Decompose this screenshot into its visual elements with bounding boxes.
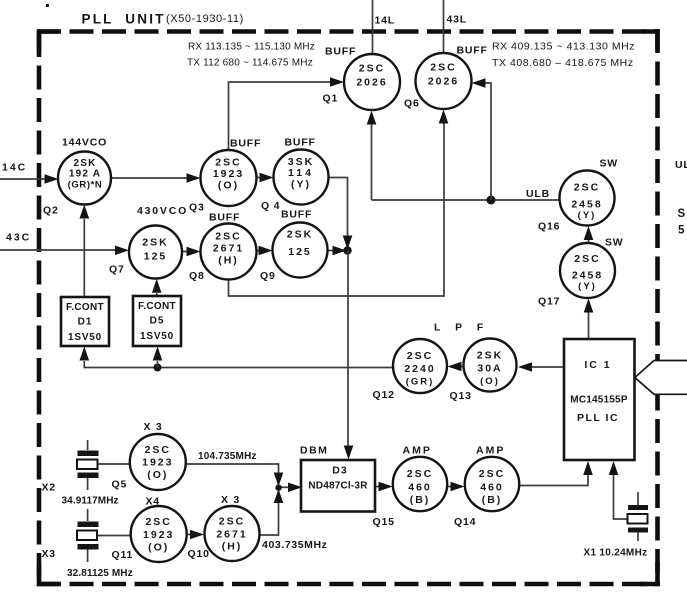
svg-text:TX 112 680 ~ 114.675 MHz: TX 112 680 ~ 114.675 MHz xyxy=(187,58,313,69)
arrow into Q9 left xyxy=(259,246,273,256)
wire Q13 to Q12 xyxy=(461,366,464,368)
svg-text:SW: SW xyxy=(600,158,619,170)
crystal X2 bottom lead xyxy=(87,478,89,490)
crystal X2 bottom plate xyxy=(78,473,99,479)
svg-text:14C: 14C xyxy=(2,162,27,174)
wire Q9 right to junction xyxy=(328,250,336,252)
svg-text:(B): (B) xyxy=(410,494,431,506)
arrow up into Q17 bottom xyxy=(584,299,594,313)
transistor Q14 amp xyxy=(465,457,519,511)
wire junction down to DBM top xyxy=(347,251,349,448)
svg-text:1923: 1923 xyxy=(143,529,174,541)
transistor Q13 xyxy=(464,339,517,392)
svg-text:BUFF: BUFF xyxy=(325,46,356,58)
wire Q1 bottom down to ULB line xyxy=(371,124,373,200)
arrow left into Q13 right xyxy=(518,362,532,372)
wire IC1 top to Q17 xyxy=(588,312,590,339)
arrow up into Q1 bottom xyxy=(367,111,377,125)
op-amp IC1 PLL MC145155P xyxy=(564,339,635,460)
svg-text:AMP: AMP xyxy=(403,445,432,457)
arrow into Q7 left xyxy=(115,246,129,256)
svg-text:MC145155P: MC145155P xyxy=(570,395,628,406)
wire Q8 to Q9 xyxy=(257,250,261,252)
svg-text:2SC: 2SC xyxy=(479,468,505,480)
wire bowtie to DBM left xyxy=(279,486,292,488)
svg-text:2SK: 2SK xyxy=(73,158,96,169)
svg-text:BUFF: BUFF xyxy=(281,209,312,221)
wire IC1 left to Q13 xyxy=(532,366,564,368)
arrow into Q4 left xyxy=(260,173,274,183)
svg-text:2SC: 2SC xyxy=(574,182,600,194)
svg-text:2671: 2671 xyxy=(213,243,244,255)
svg-text:2SC: 2SC xyxy=(407,468,433,480)
svg-text:TX 408.680 – 418.675 MHz: TX 408.680 – 418.675 MHz xyxy=(492,57,634,69)
svg-text:2SC: 2SC xyxy=(215,231,241,243)
transistor Q6 buffer 2SC2026 xyxy=(416,53,472,109)
wire Q2 to Q3 xyxy=(111,177,188,179)
svg-text:1SV50: 1SV50 xyxy=(68,332,102,343)
svg-text:Q15: Q15 xyxy=(373,516,395,528)
wire Q11 to Q10 xyxy=(187,534,192,536)
svg-text:2458: 2458 xyxy=(571,199,602,211)
wire X3 to Q11 xyxy=(98,535,131,537)
wire 14L line into Q1 top xyxy=(372,0,374,56)
arrow up into F.CONT D5 bottom xyxy=(153,347,163,361)
crystal X2 top plate xyxy=(78,451,99,457)
wire Q14 right to IC1 bottom xyxy=(519,475,588,486)
arrow up into IC1 bottom from Q14 xyxy=(583,461,593,475)
svg-text:2240: 2240 xyxy=(404,363,435,375)
crystal X1 top lead xyxy=(637,492,639,505)
svg-text:5: 5 xyxy=(678,225,685,237)
arrow up bowtie bottom xyxy=(274,489,284,503)
svg-text:Q2: Q2 xyxy=(43,205,59,217)
svg-text:(H): (H) xyxy=(222,541,243,553)
arrow up into IC1 bottom from X1 xyxy=(609,461,619,475)
svg-text:X3: X3 xyxy=(42,548,56,560)
svg-text:(O): (O) xyxy=(148,542,169,554)
wire Q5 output to mixer junction xyxy=(186,464,279,474)
svg-text:RX 113.135 ~ 115.130 MHz: RX 113.135 ~ 115.130 MHz xyxy=(188,42,315,53)
border corner elbows xyxy=(39,32,58,53)
wire ULB horizontal xyxy=(372,199,560,201)
svg-text:1923: 1923 xyxy=(142,457,173,469)
crystal X1 top plate xyxy=(628,505,648,510)
wire Q4 right down to junction xyxy=(329,178,348,238)
arrow right into Q14 left xyxy=(451,482,465,492)
svg-text:(O): (O) xyxy=(480,376,500,387)
svg-text:RX 409.135 ~ 413.130 MHz: RX 409.135 ~ 413.130 MHz xyxy=(492,41,635,53)
arrow up into Q6 bottom xyxy=(439,110,449,124)
svg-text:(Y): (Y) xyxy=(578,210,597,221)
transistor Q17 switch xyxy=(560,243,615,298)
svg-text:2SK: 2SK xyxy=(142,237,168,249)
node junction Q4/Q9 xyxy=(343,246,351,254)
svg-text:ULB: ULB xyxy=(526,188,550,200)
svg-text:L P F: L P F xyxy=(434,322,489,334)
wire F.CONT D5 top to Q7 bottom xyxy=(156,293,158,296)
arrow left into Q6 right xyxy=(472,78,486,88)
svg-text:(Y): (Y) xyxy=(578,281,597,292)
arrow down bowtie top xyxy=(274,473,284,487)
svg-text:(GR): (GR) xyxy=(406,377,435,388)
wire Q10 output to mixer junction xyxy=(260,501,279,535)
arrow into Q8 left xyxy=(187,247,201,257)
svg-text:PLL UNIT: PLL UNIT xyxy=(82,12,166,27)
svg-text:(X50-1930-11): (X50-1930-11) xyxy=(166,13,244,25)
arrow right into DBM left xyxy=(288,483,302,493)
svg-text:460: 460 xyxy=(408,482,432,494)
svg-text:(O): (O) xyxy=(218,180,239,192)
svg-text:Q11: Q11 xyxy=(112,549,134,561)
svg-text:Q 4: Q 4 xyxy=(261,200,280,212)
transistor Q9 buffer xyxy=(273,223,328,278)
crystal X1 body xyxy=(628,514,648,524)
svg-text:460: 460 xyxy=(480,482,504,494)
svg-text:125: 125 xyxy=(144,251,168,263)
wire Q8 bottom loop to Q6 bottom xyxy=(229,123,445,296)
svg-text:Q7: Q7 xyxy=(109,264,125,276)
arrow down into DBM top xyxy=(344,446,354,460)
svg-text:D3: D3 xyxy=(332,465,347,477)
svg-text:Q13: Q13 xyxy=(450,390,472,402)
svg-text:D5: D5 xyxy=(150,316,165,327)
svg-text:2SC: 2SC xyxy=(574,253,600,265)
svg-text:43L: 43L xyxy=(447,14,468,26)
svg-text:X4: X4 xyxy=(146,496,160,508)
arrow up into Q2 bottom xyxy=(80,205,90,219)
svg-text:144VCO: 144VCO xyxy=(62,137,107,149)
transistor Q4 buffer xyxy=(274,150,329,205)
svg-text:403.735MHz: 403.735MHz xyxy=(262,539,328,551)
dashed enclosure border top xyxy=(37,29,659,34)
arrow right into Q10 left xyxy=(190,530,204,540)
transistor Q15 amp xyxy=(393,457,447,511)
wire 43L line into Q6 top xyxy=(443,0,445,55)
crystal X3 bottom lead xyxy=(87,550,89,563)
wire IC1 bottom to crystal X1 xyxy=(614,475,628,520)
crystal X2 top lead xyxy=(87,440,89,450)
speck artifact xyxy=(46,4,49,7)
crystal X3 top lead xyxy=(87,509,89,521)
transistor Q11 xyxy=(131,506,187,562)
wire DBM to Q15 xyxy=(375,486,380,488)
svg-text:Q9: Q9 xyxy=(260,270,276,282)
transistor Q2 144VCO xyxy=(58,152,111,205)
svg-text:192 A: 192 A xyxy=(69,169,101,180)
arrow right into junction xyxy=(333,246,347,256)
svg-text:(O): (O) xyxy=(147,469,168,481)
svg-text:14L: 14L xyxy=(375,15,396,27)
svg-text:2SK: 2SK xyxy=(477,350,503,362)
svg-text:D1: D1 xyxy=(78,317,93,328)
svg-text:32.81125 MHz: 32.81125 MHz xyxy=(67,568,133,579)
wire junction up to Q6 right xyxy=(485,83,491,200)
svg-text:104.735MHz: 104.735MHz xyxy=(198,451,257,462)
arrow into Q3 left xyxy=(187,173,201,183)
svg-text:X 3: X 3 xyxy=(221,494,240,506)
arrow into Q2 left xyxy=(45,174,59,184)
svg-text:BUFF: BUFF xyxy=(457,45,488,57)
svg-text:BUFF: BUFF xyxy=(209,212,240,224)
wire Q15 to Q14 xyxy=(447,486,452,488)
svg-text:Q16: Q16 xyxy=(538,221,560,233)
wire 43C input xyxy=(0,249,117,251)
svg-text:BUFF: BUFF xyxy=(230,138,261,150)
svg-text:1923: 1923 xyxy=(213,168,244,180)
crystal X3 bottom plate xyxy=(78,544,99,550)
svg-text:(Y): (Y) xyxy=(291,179,311,191)
crystal X3 body xyxy=(77,531,97,541)
svg-text:Q14: Q14 xyxy=(454,516,476,528)
transistor Q16 switch xyxy=(560,171,615,226)
wire Q3 top to Q1 left xyxy=(229,82,332,150)
transistor Q8 buffer xyxy=(201,224,257,280)
crystal X1 bottom plate xyxy=(628,528,648,533)
box F.CONT D5 xyxy=(133,296,181,346)
box F.CONT D1 xyxy=(61,297,109,346)
wire Q17 to Q16 xyxy=(588,240,590,243)
node ULB junction dot xyxy=(487,196,496,205)
svg-text:X2: X2 xyxy=(42,482,56,494)
box DBM D3 ND487C1-3R xyxy=(301,460,375,512)
svg-text:125: 125 xyxy=(288,246,312,258)
svg-text:(GR)*N: (GR)*N xyxy=(68,180,103,191)
svg-text:X 3: X 3 xyxy=(144,421,163,433)
transistor Q1 buffer 2SC2026 xyxy=(344,54,400,110)
svg-text:Q17: Q17 xyxy=(538,296,560,308)
arrow left into Q12 right xyxy=(448,362,462,372)
crystal X1 bottom lead xyxy=(637,533,639,542)
hollow arrow into IC1 right xyxy=(635,361,687,395)
svg-text:IC 1: IC 1 xyxy=(584,359,611,371)
transistor Q7 430VCO xyxy=(129,226,182,279)
svg-text:2671: 2671 xyxy=(216,529,247,541)
svg-text:2458: 2458 xyxy=(572,270,603,282)
svg-text:Q3: Q3 xyxy=(189,202,205,214)
svg-text:Q10: Q10 xyxy=(188,548,210,560)
svg-text:(H): (H) xyxy=(218,255,239,267)
svg-text:1SV50: 1SV50 xyxy=(140,331,174,342)
svg-text:2SC: 2SC xyxy=(145,444,171,456)
svg-text:UL: UL xyxy=(675,159,687,171)
svg-text:2026: 2026 xyxy=(428,76,459,88)
dashed enclosure border right xyxy=(655,29,660,584)
svg-text:Q6: Q6 xyxy=(404,98,420,110)
svg-text:F.CONT: F.CONT xyxy=(138,301,176,312)
arrow up into Q7 bottom xyxy=(152,279,162,293)
node junction F.CONT D5 branch xyxy=(154,364,162,372)
svg-text:2SC: 2SC xyxy=(359,63,385,75)
svg-text:(B): (B) xyxy=(482,494,503,506)
svg-text:430VCO: 430VCO xyxy=(137,205,188,217)
dashed enclosure border left xyxy=(37,33,42,586)
wire 14C input xyxy=(0,178,47,180)
wire branch up to D5 bottom xyxy=(157,361,159,368)
svg-text:2SC: 2SC xyxy=(430,62,456,74)
svg-text:S: S xyxy=(678,208,686,220)
svg-text:SW: SW xyxy=(605,237,624,249)
svg-text:Q1: Q1 xyxy=(323,93,339,105)
svg-text:30A: 30A xyxy=(477,363,502,375)
arrow up into F.CONT D1 bottom xyxy=(80,347,90,361)
svg-text:2SK: 2SK xyxy=(287,229,313,241)
svg-text:2SC: 2SC xyxy=(407,350,433,362)
svg-text:Q5: Q5 xyxy=(112,479,128,491)
dashed enclosure border bottom xyxy=(37,582,660,587)
wire F.CONT D1 top to Q2 bottom xyxy=(83,219,85,297)
svg-text:43C: 43C xyxy=(6,232,31,244)
svg-text:F.CONT: F.CONT xyxy=(66,302,104,313)
transistor Q10 tripler xyxy=(205,506,260,561)
wire X2 to Q5 xyxy=(98,463,130,465)
wire Q12 left to F.CONT boxes xyxy=(84,361,393,368)
svg-text:BUFF: BUFF xyxy=(285,137,316,149)
svg-text:PLL IC: PLL IC xyxy=(577,412,619,424)
svg-text:AMP: AMP xyxy=(476,445,505,457)
transistor Q5 tripler xyxy=(130,434,186,490)
transistor Q3 buffer xyxy=(201,150,257,206)
wire Q7 to Q8 xyxy=(182,251,189,253)
svg-text:ND487Cl-3R: ND487Cl-3R xyxy=(308,481,368,492)
svg-text:2SC: 2SC xyxy=(215,157,241,169)
svg-text:2026: 2026 xyxy=(356,77,387,89)
svg-text:2SC: 2SC xyxy=(145,516,171,528)
arrow into Q1 left xyxy=(330,77,344,87)
svg-text:Q12: Q12 xyxy=(373,389,395,401)
arrow down into junction xyxy=(343,236,353,250)
arrow up into Q16 bottom xyxy=(584,226,594,240)
svg-text:34.9117MHz: 34.9117MHz xyxy=(62,496,119,507)
arrow right into Q15 left xyxy=(379,482,393,492)
svg-text:114: 114 xyxy=(288,167,314,179)
transistor Q12 xyxy=(393,339,447,393)
svg-text:X1 10.24MHz: X1 10.24MHz xyxy=(584,548,648,559)
svg-text:DBM: DBM xyxy=(300,445,328,457)
svg-text:Q8: Q8 xyxy=(189,270,205,282)
crystal X2 body xyxy=(77,460,98,470)
wire Q3 to Q4 xyxy=(257,177,262,179)
svg-text:2SC: 2SC xyxy=(219,516,245,528)
crystal X3 top plate xyxy=(78,522,99,528)
